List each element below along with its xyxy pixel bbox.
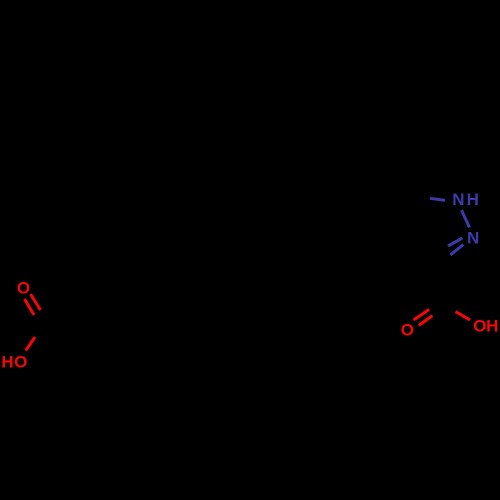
right C-OH bond half <box>456 312 471 321</box>
svg-text:HO: HO <box>1 352 28 371</box>
pyrazole C5-N1 bond half <box>430 198 445 200</box>
right C=O double bond half (upper line) <box>414 309 430 320</box>
svg-text:NH: NH <box>452 190 481 209</box>
right C=O double bond half (lower line) <box>419 316 433 326</box>
svg-text:OH: OH <box>473 316 498 335</box>
svg-text:O: O <box>401 320 414 339</box>
pyrazole C3=N2 double bond half (lower line) <box>450 245 463 255</box>
pyrazole N1-N2 bond <box>462 210 470 227</box>
left C=O double bond half (left line) <box>25 299 35 315</box>
svg-text:O: O <box>17 279 30 298</box>
left C=O double bond half (right line) <box>31 294 41 310</box>
svg-text:N: N <box>467 229 479 248</box>
left C-OH bond half <box>26 337 35 351</box>
pyrazole C3=N2 double bond half (upper line) <box>448 238 462 246</box>
